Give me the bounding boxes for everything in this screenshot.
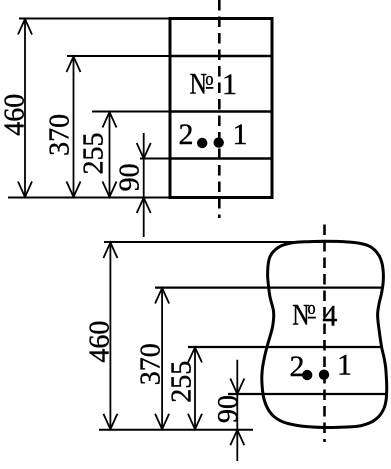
dimension 370 arrow line (top figure)	[67, 56, 81, 198]
band line at 90 level (bottom figure)	[228, 393, 387, 395]
band line at 90 level (top figure)	[170, 157, 272, 159]
svg-text:o: o	[205, 68, 213, 90]
baseline bottom edge (top figure)	[8, 197, 170, 199]
label No.1	[190, 67, 237, 101]
aiming point 2 dot (top figure)	[197, 138, 207, 148]
dimension 90 outside arrows (top figure)	[137, 133, 151, 237]
extension line 90 (top figure)	[140, 158, 170, 160]
extension line top (bottom figure)	[104, 241, 322, 243]
target No.4 curved outline	[262, 241, 387, 427]
svg-text:255: 255	[166, 361, 197, 403]
dimension 255 arrow line (bottom figure)	[188, 347, 202, 430]
dimension 460 arrow line (bottom figure)	[103, 242, 117, 430]
svg-text:2: 2	[290, 350, 305, 383]
target No.1 outline rectangle	[170, 19, 272, 198]
dimension 460 arrow line (top figure)	[18, 19, 32, 198]
label No.4	[292, 297, 337, 333]
svg-text:460: 460	[84, 321, 115, 363]
svg-text:1: 1	[337, 349, 352, 382]
svg-text:N: N	[190, 67, 207, 100]
extension line 370 (top figure)	[67, 55, 170, 57]
dashed centerline (bottom figure)	[323, 225, 326, 443]
dimension 370 arrow line (bottom figure)	[155, 288, 169, 430]
aiming point 1 dot (bottom figure)	[319, 370, 329, 380]
svg-text:460: 460	[0, 94, 31, 136]
svg-text:1: 1	[222, 68, 237, 101]
svg-text:4: 4	[322, 299, 337, 332]
baseline bottom (bottom figure)	[99, 429, 253, 431]
band line at 255 level (top figure)	[170, 110, 272, 112]
svg-text:255: 255	[79, 133, 110, 175]
dimension 255 arrow line (top figure)	[103, 112, 117, 198]
svg-text:2: 2	[179, 118, 194, 151]
extension line 255 (top figure)	[92, 111, 170, 113]
svg-text:o: o	[308, 297, 316, 319]
svg-text:90: 90	[114, 163, 145, 191]
aiming point 2 dot (bottom figure)	[302, 370, 312, 380]
aiming point 1 dot (top figure)	[214, 137, 224, 147]
svg-text:90: 90	[213, 395, 244, 423]
band line at 370 level (top figure)	[170, 55, 272, 57]
svg-text:370: 370	[136, 343, 167, 385]
svg-text:1: 1	[233, 118, 248, 151]
dashed centerline (top figure)	[218, 0, 221, 218]
band line at 370 level (bottom figure)	[155, 287, 383, 289]
svg-text:370: 370	[44, 114, 75, 156]
extension line top edge (top figure)	[19, 18, 170, 20]
dimension 90 outside arrows (bottom figure)	[230, 360, 244, 461]
band line at 255 level (bottom figure)	[188, 346, 382, 348]
